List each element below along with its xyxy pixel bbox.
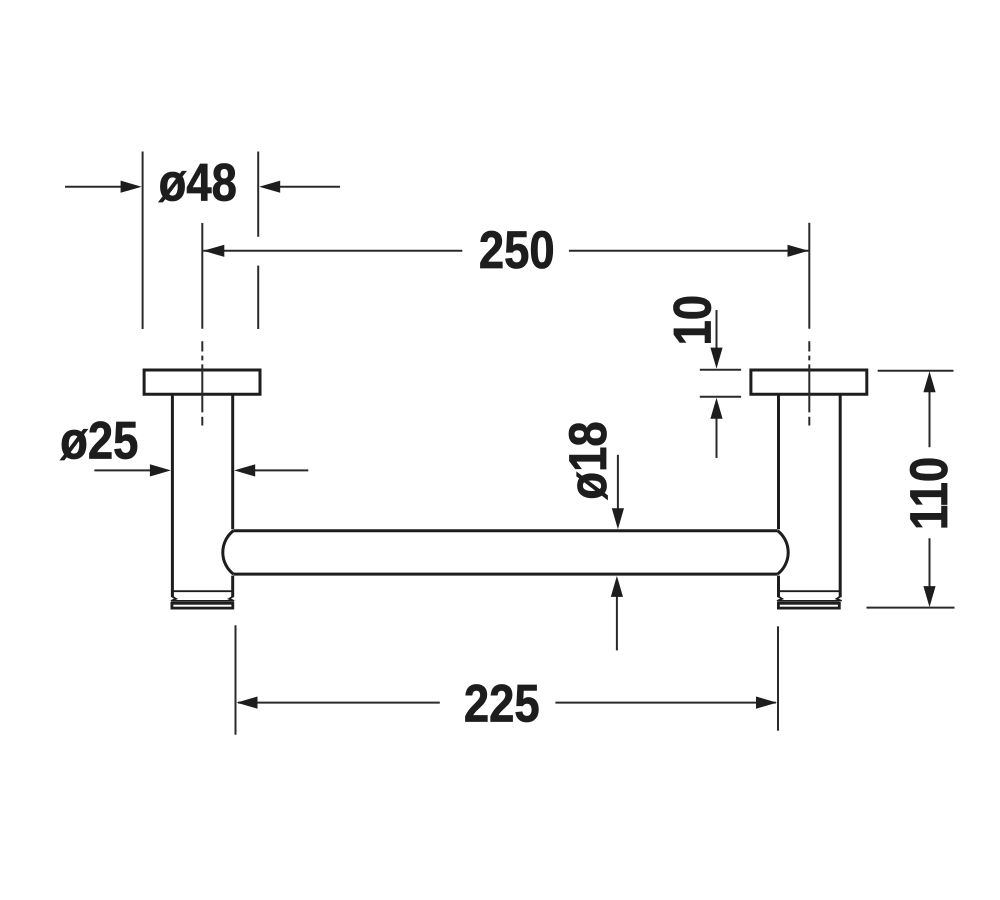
left post base ring line	[173, 590, 232, 592]
arrow ø48 right	[279, 186, 340, 188]
dimension 110: top extension line	[878, 370, 954, 372]
left post center line	[201, 223, 203, 426]
svg-text:ø25: ø25	[60, 413, 138, 471]
left post base plate	[172, 603, 233, 608]
arrow ø18 lower	[616, 597, 618, 651]
right post left edge (interrupted by bar)	[777, 394, 780, 597]
right post base ring line	[779, 590, 840, 592]
right post base flare	[777, 597, 842, 601]
dimension line 225	[238, 702, 776, 704]
left post left edge	[171, 394, 174, 597]
left post base flare	[171, 597, 234, 601]
extension line 225 right	[777, 626, 779, 730]
arrowhead 250 right	[788, 245, 809, 257]
svg-text:ø18: ø18	[560, 421, 618, 499]
dimension 10: top extension line	[700, 369, 741, 371]
arrowhead 110 up	[923, 371, 935, 392]
svg-text:250: 250	[479, 222, 555, 280]
extension line 225 left	[235, 625, 237, 734]
left mounting flange	[144, 370, 260, 394]
right mounting flange	[751, 370, 867, 394]
arrowhead 110 down	[923, 586, 935, 607]
right post right edge	[839, 394, 842, 597]
dimension 10: bottom extension line	[700, 396, 741, 398]
dimension line 250	[203, 250, 808, 252]
svg-text:225: 225	[464, 676, 540, 734]
towel bar bottom edge	[233, 573, 777, 576]
svg-text:110: 110	[901, 457, 959, 530]
extension line ø48 left	[142, 152, 144, 330]
arrow ø18 upper	[617, 455, 619, 510]
arrow ø25 left	[94, 469, 151, 471]
arrow ø48 left	[65, 186, 122, 188]
towel bar top edge	[233, 529, 777, 532]
arrowhead 225 right	[756, 697, 777, 709]
towel bar left end cap	[223, 531, 234, 574]
arrowhead 250 left	[203, 245, 224, 257]
arrow ø25 right	[254, 469, 308, 471]
right post base plate	[778, 603, 839, 608]
dimension 10: lower arrow	[716, 418, 718, 458]
dimension line 110	[929, 391, 931, 587]
svg-text:ø48: ø48	[159, 155, 237, 213]
towel bar right end cap	[778, 531, 789, 574]
svg-text:10: 10	[664, 295, 722, 346]
dimension 10: upper arrow	[716, 310, 718, 349]
right post center line	[808, 223, 810, 426]
arrowhead 225 left	[237, 697, 258, 709]
dimension 110: bottom extension line	[867, 607, 955, 609]
left post right edge (interrupted by bar)	[231, 394, 234, 597]
extension line ø48 right	[257, 152, 259, 330]
